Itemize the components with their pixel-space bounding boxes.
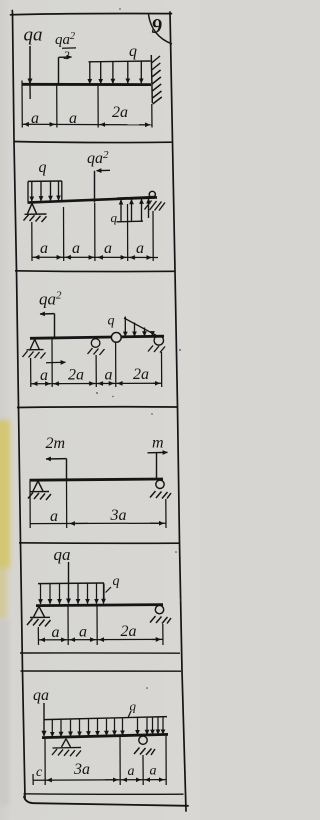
beam 3 [30,336,164,338]
moment qa^2/2 arrow [59,57,72,84]
svg-text:qa: qa [54,545,71,564]
point load qa arrow [29,46,31,99]
roller support (panel 6) [134,736,155,755]
label qa^2/2 (moment value) [55,31,76,62]
dimension droplines (panel 6) [33,735,166,785]
upward distributed load line under beam (panel 2) [117,220,144,223]
dimension droplines (panel 5) [38,606,163,645]
beam 6 [42,734,168,737]
svg-text:q: q [113,574,120,589]
dimension labels a a 2a (panel 1) [31,104,128,127]
label qa^2 (panel 2) [87,149,109,167]
label q (panel 3) [108,314,115,329]
svg-text:a: a [40,367,48,384]
svg-text:a: a [79,624,87,641]
beam 5 [36,605,163,606]
roller support right (panel 5) [150,605,171,623]
svg-text:a: a [150,764,157,779]
svg-text:qa: qa [33,687,49,704]
svg-text:a: a [50,508,58,525]
divider line 4 [19,542,180,544]
svg-text:a: a [128,764,135,779]
pin support (panel 6) [52,739,81,757]
page frame border [11,11,189,812]
svg-text:a: a [104,240,112,257]
label qa (panel 6) [33,687,49,704]
roller support right (panel 4) [150,480,171,498]
svg-text:m: m [152,435,164,452]
distributed load line (panel 6) [44,717,167,720]
beam 4 [30,479,164,480]
point load qa arrow (panel 6) [43,703,45,736]
svg-text:9: 9 [152,14,163,38]
label q left (panel 2) [39,159,47,176]
divider line 2 [15,270,175,273]
distributed load q arrows (panel 1) [90,61,142,83]
roller support middle (panel 3) [88,339,105,355]
svg-text:a: a [105,367,113,384]
upward distributed load arrows (panel 2) [121,199,149,222]
svg-text:2m: 2m [46,435,66,452]
pin support left (panel 2) [24,203,47,222]
divider line 3 [17,406,177,409]
corner arc with number 9 [149,14,173,44]
distributed load arrows (panel 5) [41,583,104,604]
divider line 6 [21,670,182,672]
svg-text:q: q [129,43,137,60]
distributed load q left arrows (panel 2) [32,182,59,202]
svg-text:qa: qa [24,25,43,46]
pin support left (panel 3) [23,339,46,358]
svg-text:q: q [108,314,115,329]
svg-text:3a: 3a [73,761,90,778]
svg-text:2: 2 [64,48,70,62]
label qa (point load value) [24,25,43,46]
dimension labels a 3a (panel 4) [50,507,127,525]
label m (panel 4) [152,435,164,452]
moment m arrow (panel 4) [148,452,168,478]
roller support right (panel 3) [148,336,165,353]
fixed wall support (panel 1) [151,55,162,104]
dimension labels a 2a a 2a (panel 3) [40,366,149,384]
triangular load arrows (panel 3) [125,317,152,337]
triangular load hypotenuse (panel 3) [124,318,156,335]
label q (panel 1) [129,43,137,60]
svg-text:a: a [136,240,144,257]
label q right (panel 2) [111,210,118,225]
moment qa^2 arrow (panel 3) [40,314,55,337]
distributed load arrows (panel 6) [52,717,163,737]
moment qa^2 arrow (panel 2) [95,170,111,202]
label qa (panel 5) [54,545,71,564]
svg-text:c: c [36,765,43,780]
svg-text:a: a [40,240,48,257]
svg-text:3a: 3a [110,507,127,524]
svg-text:q: q [39,159,47,176]
point load qa arrow (panel 5) [68,562,70,604]
dimension line (panel 5) [38,638,163,641]
pin support left (panel 4) [28,481,51,500]
dimension line (panel 4) [30,522,166,524]
dimension droplines (panel 4) [30,479,166,528]
svg-text:a: a [31,110,39,127]
dimension labels a a a a (panel 2) [40,240,144,257]
beam 1 [22,83,152,86]
hinge circle on beam (panel 3) [111,333,121,343]
svg-text:2a: 2a [112,104,128,121]
svg-text:2a: 2a [121,623,137,640]
dimension line (panel 3) [31,382,162,385]
distributed load q left line (panel 2) [28,181,62,202]
dimension line (panel 1) [22,123,152,126]
svg-text:a: a [72,240,80,257]
distributed load q line (panel 1) [89,60,151,63]
divider line 5 [20,652,180,654]
label qa^2 (panel 3) [39,290,62,309]
label q with leader (panel 5) [104,574,120,599]
dimension labels c 3a a a (panel 6) [36,761,157,780]
moment 2m arrow (panel 4) [46,459,67,480]
svg-text:2a: 2a [133,366,149,383]
dimension labels a a 2a (panel 5) [52,623,137,641]
svg-text:q: q [111,210,118,225]
dimension line (panel 2) [33,256,159,258]
divider line 1 [14,142,172,143]
dimension droplines (panel 1) [22,81,152,128]
divider line 7 [24,793,184,795]
label 2m (panel 4) [46,435,66,452]
roller circle right end (panel 2) [149,191,155,197]
dimension droplines (panel 3) [31,339,162,387]
distributed load line (panel 5) [38,582,104,585]
small arrow under beam (panel 3) [46,361,66,364]
dimension line (panel 6) [33,779,166,782]
beam 2 [28,197,158,203]
paper background [0,0,200,820]
stray scan specks [96,8,182,689]
support hatching right end (panel 2) [145,201,166,211]
svg-text:a: a [69,110,77,127]
svg-text:2a: 2a [68,367,84,384]
pin support left (panel 5) [27,606,51,626]
svg-text:a: a [52,624,60,641]
label q with leader (panel 6) [128,699,136,718]
dimension droplines (panel 2) [32,203,153,261]
